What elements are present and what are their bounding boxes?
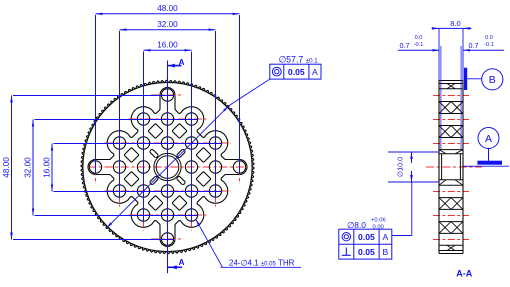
center bore inner circle bbox=[156, 156, 179, 179]
slot cutout (4.0,-5.0) bbox=[176, 149, 186, 159]
diamond cutout (-12,4) bbox=[124, 172, 139, 187]
section mark A top bbox=[168, 65, 182, 67]
section centerlines red bbox=[433, 95, 469, 97]
diamond cutout (12,4) bbox=[196, 172, 211, 187]
extension line y=215.5 bbox=[35, 215, 198, 217]
svg-text:∅10.0: ∅10.0 bbox=[396, 157, 405, 177]
hole (-16,8) bbox=[113, 185, 125, 197]
centerline col x=-48 bbox=[119, 129, 121, 207]
extension line y=239.5 bbox=[13, 239, 173, 241]
hole (-16,-8) bbox=[113, 137, 125, 149]
extension line x=119.5 bbox=[119, 31, 121, 198]
dimension 48.00 top bbox=[96, 13, 240, 15]
section internal edges bbox=[439, 83, 463, 85]
svg-text:0.0: 0.0 bbox=[415, 35, 423, 41]
diamond cutout (4,12) bbox=[172, 196, 187, 211]
svg-text:8.0: 8.0 bbox=[450, 19, 461, 28]
hole (0,24) bbox=[161, 233, 173, 245]
hole (0,-24) bbox=[161, 89, 173, 101]
svg-text:A: A bbox=[179, 57, 185, 67]
hole (8,8) bbox=[185, 185, 197, 197]
hole (24,0) bbox=[233, 161, 245, 173]
centerline col x=72 bbox=[239, 151, 241, 184]
centerline col x=24 bbox=[191, 105, 193, 231]
dimension 48.00 left bbox=[11, 96, 13, 240]
svg-text:16.00: 16.00 bbox=[42, 157, 51, 178]
feature control frame bore bbox=[339, 229, 392, 259]
centerline row y=-24 bbox=[105, 142, 231, 144]
extension line x=239.5 bbox=[239, 15, 241, 173]
centerline row y=72 bbox=[151, 238, 184, 240]
svg-text:0.7: 0.7 bbox=[469, 41, 479, 50]
svg-text:+0.06: +0.06 bbox=[371, 218, 386, 224]
hole (16,0) bbox=[209, 161, 221, 173]
hole (-8,8) bbox=[137, 185, 149, 197]
svg-text:48.00: 48.00 bbox=[157, 4, 178, 13]
hole (-16,0) bbox=[113, 161, 125, 173]
hole (-8,16) bbox=[137, 209, 149, 221]
hole (0,-8) bbox=[161, 137, 173, 149]
leader bore frame bbox=[392, 235, 412, 237]
extension line y=95.5 bbox=[13, 95, 173, 97]
slot cutout (-5.0,-5.0) bbox=[149, 149, 159, 159]
svg-text:A-A: A-A bbox=[456, 269, 472, 279]
diamond cutout (12,-4) bbox=[196, 148, 211, 163]
svg-text:A: A bbox=[312, 67, 318, 77]
diamond cutout (-4,12) bbox=[148, 196, 163, 211]
centerline col x=-24 bbox=[143, 105, 145, 231]
svg-text:∅8.0: ∅8.0 bbox=[347, 220, 366, 230]
section body outline bbox=[438, 81, 440, 254]
dimension 16.00 left bbox=[51, 144, 53, 192]
centerline col x=48 bbox=[215, 129, 217, 207]
dimension 16.00 top bbox=[144, 49, 192, 51]
dimension 8.0 bbox=[432, 27, 472, 29]
svg-text:32.00: 32.00 bbox=[157, 20, 178, 29]
dimension 32.00 left bbox=[32, 120, 34, 216]
dimension 32.00 top bbox=[120, 29, 216, 31]
gear root circle bbox=[83, 82, 252, 251]
datum B bbox=[464, 68, 467, 90]
svg-text:16.00: 16.00 bbox=[157, 41, 178, 50]
dimension 0.7 left bbox=[398, 49, 439, 51]
leader note 24 holes bbox=[196, 219, 223, 267]
hole (16,-8) bbox=[209, 137, 221, 149]
svg-text:-0.1: -0.1 bbox=[484, 42, 494, 48]
hole (0,8) bbox=[161, 185, 173, 197]
hole (-8,-16) bbox=[137, 113, 149, 125]
extension line y=191.5 bbox=[54, 191, 222, 193]
slot cutout (4.0,4.0) bbox=[176, 176, 186, 186]
datum A bbox=[464, 165, 510, 167]
svg-text:A: A bbox=[179, 257, 185, 267]
diamond cutout (4,-12) bbox=[172, 124, 187, 139]
svg-text:A: A bbox=[383, 232, 389, 242]
svg-text:0.7: 0.7 bbox=[400, 41, 410, 50]
centerline col x=0 bbox=[167, 88, 169, 247]
diamond cutout (-12,-4) bbox=[124, 148, 139, 163]
bore walls bbox=[441, 154, 443, 180]
extension line x=191.5 bbox=[191, 52, 193, 222]
leader diameter 57.7 bbox=[106, 106, 229, 229]
gear tooth ring bbox=[81, 80, 254, 253]
svg-text:32.00: 32.00 bbox=[23, 157, 32, 178]
svg-text:A: A bbox=[485, 133, 492, 145]
hole (0,16) bbox=[161, 209, 173, 221]
hole (0,-16) bbox=[161, 113, 173, 125]
dimension diam 10.0 bbox=[388, 151, 439, 153]
centerline row y=0 bbox=[88, 166, 247, 168]
diamond cutout (-4,-12) bbox=[148, 124, 163, 139]
svg-text:48.00: 48.00 bbox=[2, 157, 11, 178]
center bore outer circle bbox=[154, 153, 181, 180]
svg-text:B: B bbox=[489, 74, 496, 86]
hole (8,-16) bbox=[185, 113, 197, 125]
hole (-24,0) bbox=[89, 161, 101, 173]
svg-text:0.05: 0.05 bbox=[358, 247, 375, 257]
extension overlays bbox=[438, 28, 440, 80]
centerline row y=-48 bbox=[129, 118, 207, 120]
dimension 0.7 right bbox=[463, 49, 504, 51]
extension line x=215.5 bbox=[215, 31, 217, 198]
svg-text:0.05: 0.05 bbox=[288, 67, 305, 77]
hole (8,-8) bbox=[185, 137, 197, 149]
centerline col x=-72 bbox=[95, 151, 97, 184]
extension line y=119.5 bbox=[35, 119, 198, 121]
extension line y=143.5 bbox=[54, 143, 222, 145]
svg-text:B: B bbox=[383, 247, 389, 257]
centerline row y=24 bbox=[105, 190, 231, 192]
svg-text:-0.1: -0.1 bbox=[414, 42, 424, 48]
hole (16,8) bbox=[209, 185, 221, 197]
svg-text:0.05: 0.05 bbox=[358, 232, 375, 242]
section mark A bottom bbox=[168, 266, 183, 268]
extension line x=95.5 bbox=[95, 15, 97, 173]
section line A vertical bbox=[167, 61, 169, 274]
hole (-8,0) bbox=[137, 161, 149, 173]
centerline row y=48 bbox=[129, 214, 207, 216]
centerline row y=-72 bbox=[151, 94, 184, 96]
hole (-8,-8) bbox=[137, 137, 149, 149]
svg-text:0.0: 0.0 bbox=[485, 35, 493, 41]
extension line x=143.5 bbox=[143, 52, 145, 222]
hatching bbox=[447, 84, 455, 89]
hole (8,0) bbox=[185, 161, 197, 173]
gear web plate bbox=[88, 88, 247, 247]
feature control frame 0.05 A bbox=[270, 64, 321, 79]
slot cutout (-5.0,4.0) bbox=[149, 176, 159, 186]
hole (8,16) bbox=[185, 209, 197, 221]
